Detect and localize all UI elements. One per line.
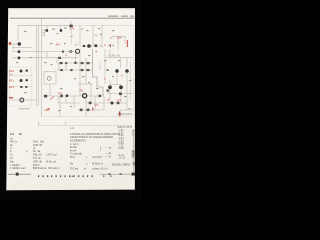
svg-text:R12: R12 <box>9 85 15 89</box>
svg-text:B2FS: B2FS <box>33 163 40 167</box>
svg-text:— 3c: — 3c <box>105 155 112 159</box>
svg-text:schem 115 e: schem 115 e <box>92 166 108 170</box>
svg-text:ESL 10: ESL 10 <box>33 153 42 157</box>
svg-text:LAST wd: LAST wd <box>46 153 57 157</box>
svg-text:R10: R10 <box>9 69 15 73</box>
svg-text:j.: j. <box>85 155 88 159</box>
svg-text:%p.: %p. <box>10 159 15 163</box>
svg-text:7p.: 7p. <box>10 156 14 160</box>
svg-text:mfd 115: mfd 115 <box>92 155 102 159</box>
svg-text:4k7: 4k7 <box>56 43 61 47</box>
svg-text:— 2b: — 2b <box>105 151 112 155</box>
svg-text:S.1401 L41: S.1401 L41 <box>108 55 121 58</box>
svg-text:10L 4e: 10L 4e <box>33 156 41 160</box>
svg-text:M.Mcln d: M.Mcln d <box>92 161 103 165</box>
svg-text:B2FS ed.wl: B2FS ed.wl <box>33 166 47 170</box>
svg-text:hM.Ado cl: hM.Ado cl <box>48 166 60 170</box>
svg-text:M.Mc ad: M.Mc ad <box>46 159 57 163</box>
svg-text:din 41: din 41 <box>108 44 115 47</box>
svg-text:SCHEMATIC: SCHEMATIC <box>70 139 86 143</box>
svg-text:1 SESbc cum: 1 SESbc cum <box>10 166 26 170</box>
svg-text:R11: R11 <box>9 79 14 83</box>
svg-text:Dl ty: Dl ty <box>70 155 76 159</box>
svg-text:8 B8: 8 B8 <box>119 147 125 150</box>
svg-text:10k: 10k <box>10 132 15 136</box>
svg-text:R2: R2 <box>80 88 84 92</box>
svg-text:5%: 5% <box>95 103 100 107</box>
svg-text:10 C2: 10 C2 <box>119 156 126 159</box>
svg-text:converter: converter <box>19 106 30 110</box>
svg-text:P.O.ed: P.O.ed <box>70 166 79 170</box>
svg-text:12k: 12k <box>70 26 75 30</box>
svg-text:INTL 4h: INTL 4h <box>33 159 43 163</box>
svg-text:e ln: e ln <box>70 126 75 130</box>
svg-text:9a.: 9a. <box>70 161 74 165</box>
svg-text:100n: 100n <box>117 37 123 40</box>
svg-text:47k: 47k <box>117 98 122 102</box>
svg-text:— 1a: — 1a <box>105 145 112 149</box>
svg-text:SMPS 115 B: SMPS 115 B <box>118 113 132 116</box>
svg-text:MODEL SMPS: MODEL SMPS <box>112 162 130 166</box>
svg-text:6L. 4a: 6L. 4a <box>33 149 41 153</box>
svg-text:1 SESbc: 1 SESbc <box>10 163 21 167</box>
svg-text:TP1: TP1 <box>58 92 64 96</box>
